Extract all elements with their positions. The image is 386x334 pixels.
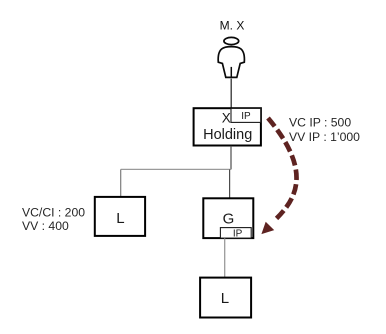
box G xyxy=(203,198,253,238)
svg-text:X: X xyxy=(222,111,231,126)
label M. X xyxy=(220,19,245,33)
svg-text:VV : 400: VV : 400 xyxy=(22,219,69,233)
labels VC IP / VV IP xyxy=(289,115,360,144)
box Holding (company X) xyxy=(194,108,261,145)
wire junction to G xyxy=(229,169,231,198)
box L (bottom) xyxy=(200,278,251,318)
label X on Holding xyxy=(222,111,231,126)
svg-text:VC/CI : 200: VC/CI : 200 xyxy=(22,206,85,220)
wire G to bottom L xyxy=(224,238,226,277)
svg-text:L: L xyxy=(221,290,229,307)
labels VC/CI / VV xyxy=(22,206,85,234)
svg-text:Holding: Holding xyxy=(203,127,252,143)
IP box on Holding xyxy=(231,108,261,122)
box L (left) xyxy=(95,197,145,236)
label Holding xyxy=(203,127,252,143)
wire horizontal branch xyxy=(121,168,231,170)
svg-text:VV IP : 1’000: VV IP : 1’000 xyxy=(289,130,360,144)
svg-text:M. X: M. X xyxy=(220,19,245,33)
svg-text:VC IP : 500: VC IP : 500 xyxy=(289,115,351,129)
svg-text:G: G xyxy=(223,210,235,227)
svg-text:L: L xyxy=(116,210,124,227)
IP box on G xyxy=(220,228,251,240)
wire Holding to junction xyxy=(230,146,232,170)
svg-text:IP: IP xyxy=(241,111,251,122)
dashed arrow (maroon curved) xyxy=(261,118,296,234)
svg-text:IP: IP xyxy=(233,228,243,239)
wire junction to L xyxy=(120,169,122,196)
wire person to Holding xyxy=(230,79,232,108)
person icon (actor M.X) xyxy=(218,37,244,77)
